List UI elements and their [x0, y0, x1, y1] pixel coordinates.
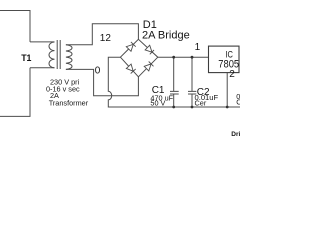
bridge D1 diamond	[120, 39, 157, 77]
svg-text:Cer: Cer	[195, 98, 207, 107]
diode top-right	[145, 45, 154, 54]
capacitor C1 plates	[170, 91, 179, 94]
IC U1 7805 box	[209, 46, 240, 73]
capacitor C2 top lead	[191, 57, 193, 91]
svg-text:Transformer: Transformer	[49, 98, 89, 107]
svg-text:12: 12	[100, 33, 112, 44]
diode bottom-right	[144, 62, 153, 71]
svg-text:Dri: Dri	[231, 131, 240, 138]
capacitor C1 bottom lead	[173, 94, 175, 107]
junction dot C2 bottom	[191, 106, 194, 109]
wire secondary 12V tap to bridge top	[66, 24, 138, 45]
wire primary top lead	[30, 41, 55, 43]
wire secondary 0V tap to bridge bottom	[66, 69, 138, 95]
IC U1 pin 2 ground lead	[226, 73, 228, 107]
junction dot C1 bottom	[172, 106, 175, 109]
wire bridge plus rail to IC pin 1	[158, 56, 209, 58]
svg-text:2A Bridge: 2A Bridge	[142, 29, 190, 41]
svg-text:0: 0	[95, 65, 101, 76]
diode top-left	[126, 42, 135, 51]
capacitor C1 top lead	[173, 57, 175, 91]
transformer T1 core	[57, 40, 60, 69]
junction dot C1 top	[172, 56, 175, 59]
svg-text:T1: T1	[21, 53, 31, 63]
wire mains input bottom	[0, 68, 30, 117]
capacitor C2 plates	[188, 91, 196, 94]
transformer T1 secondary winding	[66, 45, 72, 70]
svg-text:7805: 7805	[218, 59, 239, 71]
diode bottom-left	[126, 64, 135, 73]
transformer T1 primary winding	[49, 42, 55, 68]
wire primary bottom lead	[30, 67, 55, 69]
wire bridge minus to ground rail (with hop)	[108, 57, 240, 107]
svg-text:2: 2	[229, 69, 235, 80]
junction dot C2 top	[191, 56, 194, 59]
capacitor C2 bottom lead	[191, 94, 193, 107]
wire mains input top	[0, 11, 30, 42]
svg-text:1: 1	[195, 42, 201, 53]
svg-text:50 V: 50 V	[150, 99, 165, 108]
svg-text:Cer: Cer	[236, 98, 240, 107]
junction dot IC pin2 ground	[226, 106, 229, 109]
